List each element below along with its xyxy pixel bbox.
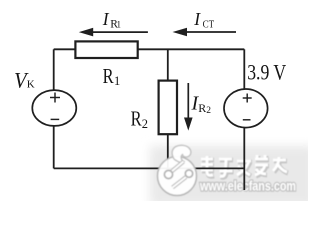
svg-text:R: R (131, 106, 142, 130)
svg-text:I: I (193, 9, 201, 29)
svg-text:2: 2 (206, 106, 211, 116)
svg-text:2: 2 (142, 117, 148, 131)
svg-text:www.elecfans.com: www.elecfans.com (199, 179, 296, 194)
svg-text:K: K (27, 78, 35, 90)
svg-text:1: 1 (114, 74, 120, 88)
svg-text:R: R (198, 101, 206, 115)
svg-text:CT: CT (203, 18, 215, 30)
svg-text:I: I (102, 9, 110, 29)
svg-text:1: 1 (117, 20, 122, 30)
svg-text:3.9 V: 3.9 V (247, 60, 286, 85)
svg-text:R: R (103, 64, 114, 88)
